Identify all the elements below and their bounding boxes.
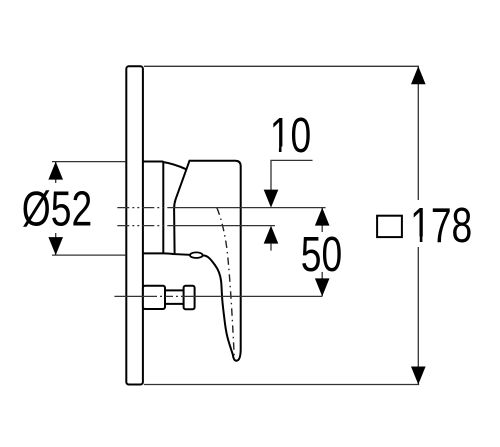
svg-text:10: 10 (270, 109, 311, 163)
handle lever outline (174, 161, 241, 361)
ext line O52 bottom (52, 254, 125, 256)
escutcheon dome curve (163, 162, 187, 169)
diverter knob (184, 286, 195, 310)
diverter stem top (165, 289, 184, 291)
centerline upper solid part (174, 207, 326, 209)
svg-text:Ø52: Ø52 (22, 183, 92, 237)
handle button oval (190, 252, 203, 258)
valve axis line dash-dot in stem (149, 295, 186, 297)
ext line bottom (178) (144, 384, 419, 386)
ext line O52 top (52, 161, 125, 163)
escutcheon cap top edge (143, 161, 163, 163)
10-dim reference corner (271, 160, 313, 191)
arrow 10 down (264, 190, 279, 208)
svg-text:50: 50 (301, 228, 342, 282)
arrow 10 up (264, 226, 279, 244)
valve axis line right (186, 295, 322, 297)
arrow 50 up (315, 208, 330, 226)
escutcheon inner edge (162, 162, 164, 254)
dim line 178 upper (417, 66, 419, 200)
arrow 178 bottom (411, 367, 426, 385)
stub below 10 up-arrow (270, 244, 272, 251)
serif trim label 178 digit 1 (412, 237, 420, 244)
dim line 50 upper stub (321, 208, 323, 232)
dim stub O52 bottom (55, 233, 57, 255)
diverter stem bottom (165, 303, 184, 305)
ext line top (178) (144, 65, 419, 67)
arrow 178 top (411, 66, 426, 84)
square symbol (377, 216, 402, 237)
dim line 50 lower stub (321, 272, 323, 296)
escutcheon bottom edge (143, 252, 174, 255)
centerline upper (10-dim reference, dash-dot left part) (117, 207, 174, 209)
svg-text:178: 178 (410, 199, 472, 253)
centerline lower (dash-dot left part) (117, 225, 174, 227)
arrow 50 down (315, 278, 330, 296)
valve axis line left (114, 295, 149, 297)
serif trim label 10 digit 1 (272, 147, 279, 154)
centerline lower solid part (174, 225, 275, 227)
arrow O52 up (48, 162, 63, 180)
handle lever hidden centerline (217, 208, 234, 356)
diverter block (143, 286, 165, 309)
arrow O52 down (48, 237, 63, 255)
wall plate (126, 66, 143, 384)
dim line 178 lower (417, 247, 419, 385)
dim stub O52 top (55, 162, 57, 183)
